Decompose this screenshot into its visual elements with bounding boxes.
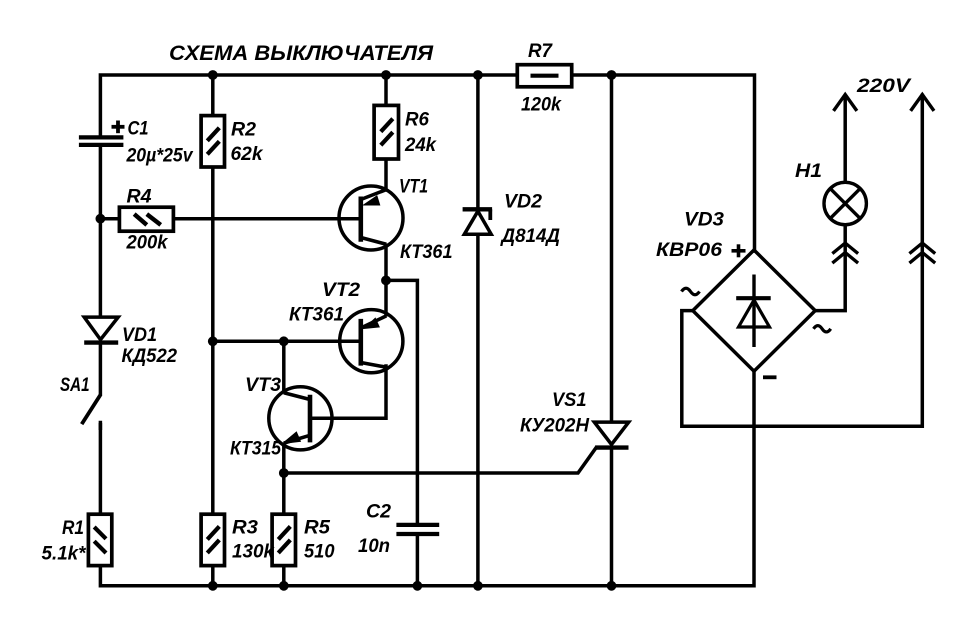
wire VS1 column above xyxy=(610,75,614,423)
svg-text:R6: R6 xyxy=(405,109,429,131)
zener VD2 cathode wing xyxy=(488,209,492,220)
wire VT2 collector to VT3 base xyxy=(310,366,386,418)
node base row R2 column xyxy=(208,336,218,346)
node VT3 emitter gate xyxy=(279,468,289,478)
capacitor C2 top plate xyxy=(396,523,439,527)
wire VD2 column above xyxy=(476,75,480,210)
svg-text:C2: C2 xyxy=(366,501,391,523)
svg-text:КТ361: КТ361 xyxy=(289,304,344,326)
node bottom VS1 xyxy=(607,581,617,591)
node R4 left xyxy=(96,214,106,224)
node top rail VS1 xyxy=(607,70,617,80)
wire R4 row (node to VT1 base) xyxy=(100,217,360,221)
thyristor VS1 cathode bar xyxy=(595,445,628,449)
svg-text:10n: 10n xyxy=(358,535,390,557)
svg-text:R1: R1 xyxy=(62,517,84,539)
svg-text:H1: H1 xyxy=(795,160,822,182)
node top rail VD2 xyxy=(473,70,483,80)
wire top rail with left corner down to C1 xyxy=(100,75,754,251)
svg-text:220V: 220V xyxy=(856,75,912,97)
resistor R3 box xyxy=(201,514,224,565)
node base row VT3 collector xyxy=(279,336,289,346)
thyristor VS1 triangle xyxy=(594,422,628,444)
bridge VD3 inner diode bar xyxy=(736,296,771,300)
switch SA1 blade xyxy=(82,395,101,424)
svg-text:R7: R7 xyxy=(528,40,553,62)
resistor R7 box xyxy=(517,65,571,87)
wire node VT1c to C2 branch xyxy=(386,280,417,524)
svg-text:VD1: VD1 xyxy=(122,324,157,346)
svg-text:20µ*25v: 20µ*25v xyxy=(126,145,194,167)
node top rail R2 xyxy=(208,70,218,80)
bridge VD3 inner diode triangle xyxy=(739,300,770,327)
transistor VT1 circle xyxy=(339,186,403,250)
transistor VT1 base bar xyxy=(358,197,363,242)
svg-text:VD2: VD2 xyxy=(504,191,542,213)
svg-text:VT2: VT2 xyxy=(322,279,360,301)
wire VT3 collector column xyxy=(282,341,286,393)
resistor R5 box xyxy=(272,514,295,565)
node bottom C2 xyxy=(413,581,423,591)
wire VS1 cathode to bottom rail xyxy=(610,447,614,586)
svg-text:R4: R4 xyxy=(127,186,152,208)
transistor VT2 circle xyxy=(340,310,403,373)
capacitor C1 plus sign xyxy=(112,125,125,129)
resistor R6 box xyxy=(374,105,398,159)
svg-text:VT1: VT1 xyxy=(399,176,428,198)
node top rail R6 xyxy=(381,70,391,80)
svg-text:КТ361: КТ361 xyxy=(400,241,453,263)
wire thyristor gate row xyxy=(284,449,596,474)
resistor R2 box xyxy=(201,116,224,167)
zener VD2 triangle xyxy=(464,211,491,234)
transistor VT1 collector lead xyxy=(361,238,387,245)
bridge VD3 AC squiggle left xyxy=(682,288,700,295)
resistor R4 box xyxy=(119,207,173,231)
lamp H1 circle xyxy=(824,182,866,224)
transistor VT2 base bar xyxy=(358,319,363,366)
capacitor C2 bottom plate xyxy=(396,532,439,536)
wire R2-R3 column xyxy=(211,75,215,586)
svg-text:5.1k*: 5.1k* xyxy=(42,543,87,565)
node VT1 collector xyxy=(381,276,391,286)
capacitor C1 top plate xyxy=(79,135,124,139)
node bottom R5 xyxy=(279,581,289,591)
svg-text:КТ315: КТ315 xyxy=(230,438,282,460)
transistor VT2 emitter lead xyxy=(361,316,387,328)
bridge VD3 minus mark xyxy=(763,375,777,379)
svg-text:510: 510 xyxy=(304,541,335,563)
resistor R1 box xyxy=(88,514,111,565)
svg-text:R2: R2 xyxy=(231,119,256,141)
svg-text:24k: 24k xyxy=(404,134,437,156)
transistor VT3 collector lead xyxy=(284,393,310,400)
transistor VT2 emitter arrow xyxy=(364,318,379,328)
svg-text:62k: 62k xyxy=(231,143,264,165)
wire C2 to bottom rail xyxy=(416,535,420,586)
wire left column C1 to VD1 xyxy=(99,144,103,319)
svg-text:SA1: SA1 xyxy=(60,374,90,396)
arrow 220V left xyxy=(835,95,856,110)
svg-text:VS1: VS1 xyxy=(552,389,587,411)
svg-text:VD3: VD3 xyxy=(684,209,724,231)
switch SA1 lower contact xyxy=(99,423,103,430)
node bottom VD2 xyxy=(473,581,483,591)
zener VD2 cathode bar xyxy=(463,207,493,211)
wire bottom rail from R1 to bridge bottom vertex xyxy=(100,371,754,586)
svg-text:R5: R5 xyxy=(304,517,331,539)
wire R5 column node to bottom rail xyxy=(282,473,286,586)
wire R6 column top rail to VT1 emitter xyxy=(384,75,388,191)
wire VD2 column below to bottom rail xyxy=(476,234,480,586)
svg-text:КУ202Н: КУ202Н xyxy=(520,415,590,437)
bridge VD3 diamond xyxy=(693,250,815,371)
transistor VT3 circle xyxy=(269,387,332,450)
svg-text:КВР06: КВР06 xyxy=(656,239,722,261)
bridge VD3 plus mark xyxy=(732,249,746,253)
wire VT2 base row xyxy=(213,340,361,344)
transistor VT1 emitter lead xyxy=(361,190,386,200)
transistor VT2 collector lead xyxy=(361,363,387,368)
bridge VD3 AC squiggle right xyxy=(814,326,831,332)
capacitor C1 bottom plate xyxy=(79,143,124,147)
wire VT1 collector to VT2 emitter xyxy=(384,244,388,317)
svg-text:Д814Д: Д814Д xyxy=(500,225,560,247)
break chevrons right line xyxy=(911,243,934,253)
break chevrons lamp line xyxy=(834,243,857,253)
transistor VT3 base bar xyxy=(308,395,313,443)
wire bridge right vertex to lamp xyxy=(815,226,845,311)
svg-text:КД522: КД522 xyxy=(122,345,178,367)
lamp H1 cross xyxy=(831,189,860,218)
wire VT3 emitter to node xyxy=(282,443,286,474)
node bottom R3 xyxy=(208,581,218,591)
svg-text:R3: R3 xyxy=(232,517,258,539)
bridge VD3 inner diode line xyxy=(752,275,755,348)
wire bridge left vertex to right mains line xyxy=(682,96,923,427)
svg-text:130k: 130k xyxy=(232,541,275,563)
svg-text:200k: 200k xyxy=(126,232,169,254)
wire VD1 to switch SA1 xyxy=(99,343,103,397)
svg-text:C1: C1 xyxy=(128,118,149,140)
transistor VT1 emitter arrow xyxy=(364,196,380,205)
diode VD1 cathode bar xyxy=(84,340,118,344)
arrow 220V right xyxy=(912,95,933,110)
diode VD1 triangle xyxy=(84,317,118,340)
transistor VT3 emitter arrow xyxy=(283,432,301,443)
svg-text:120k: 120k xyxy=(521,94,562,116)
svg-text:VT3: VT3 xyxy=(245,374,281,396)
svg-text:СХЕМА ВЫКЛЮЧАТЕЛЯ: СХЕМА ВЫКЛЮЧАТЕЛЯ xyxy=(169,42,434,65)
transistor VT3 emitter lead xyxy=(284,435,310,443)
wire lamp to arrow xyxy=(843,96,847,183)
